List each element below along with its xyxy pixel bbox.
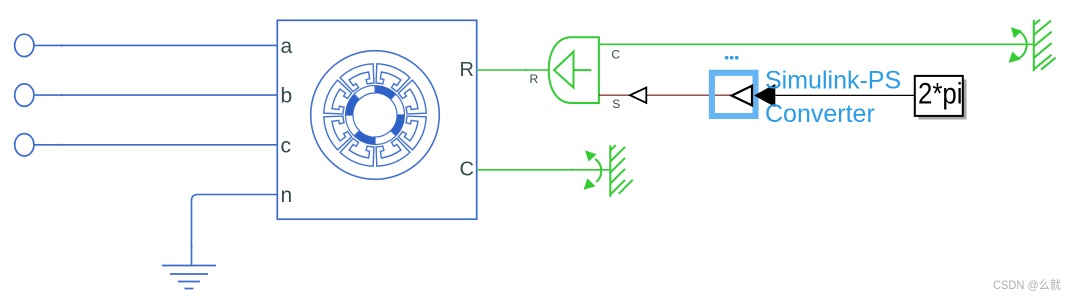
rotor magnet ring <box>375 85 396 99</box>
converter label <box>765 66 901 128</box>
svg-text:C: C <box>460 159 474 181</box>
ideal angular velocity source block <box>549 37 599 103</box>
svg-text:2*pi: 2*pi <box>918 77 963 110</box>
wire (constant to converter) <box>775 94 915 96</box>
svg-text:CSDN @么就: CSDN @么就 <box>993 278 1061 292</box>
port connector circle c <box>15 134 34 156</box>
svg-text:Converter: Converter <box>765 100 875 128</box>
svg-text:C: C <box>611 48 620 62</box>
stator outer circle <box>311 51 440 180</box>
simulink signal arrowhead <box>754 84 775 107</box>
svg-text:S: S <box>612 97 620 111</box>
constant block 2*pi <box>919 80 967 120</box>
Simulink-PS Converter block <box>712 73 756 116</box>
source triangle <box>554 52 574 88</box>
mechanical rotational reference (left) <box>595 145 633 197</box>
PS arrow on wire <box>630 88 646 103</box>
machine port labels <box>281 35 293 207</box>
wire S (PS signal, source to converter) <box>599 94 732 96</box>
svg-text:c: c <box>281 134 292 157</box>
svg-text:Simulink-PS: Simulink-PS <box>765 66 901 94</box>
converter output PS arrow <box>732 86 752 106</box>
wire b <box>34 94 277 96</box>
port connector circle a <box>15 34 34 56</box>
wire R (machine to source, mech rotational) <box>477 69 549 71</box>
wire a <box>34 44 277 46</box>
svg-text:a: a <box>281 35 293 58</box>
svg-text:R: R <box>530 72 539 86</box>
svg-text:b: b <box>281 85 293 108</box>
wire c <box>34 144 277 146</box>
mechanical rotational reference (right) <box>1018 20 1056 72</box>
svg-text:n: n <box>281 184 293 207</box>
annotation dots <box>725 56 739 60</box>
wire C top (source to reference) <box>599 43 1034 45</box>
stator teeth <box>376 64 410 92</box>
svg-text:R: R <box>460 59 474 81</box>
machine block (a,b,c,n | R,C) <box>277 20 476 219</box>
wire n (to ground) <box>192 195 278 266</box>
ground (electrical reference) <box>162 266 216 289</box>
port connector circle b <box>15 84 34 106</box>
wire C lower (machine C to reference) <box>477 169 611 171</box>
